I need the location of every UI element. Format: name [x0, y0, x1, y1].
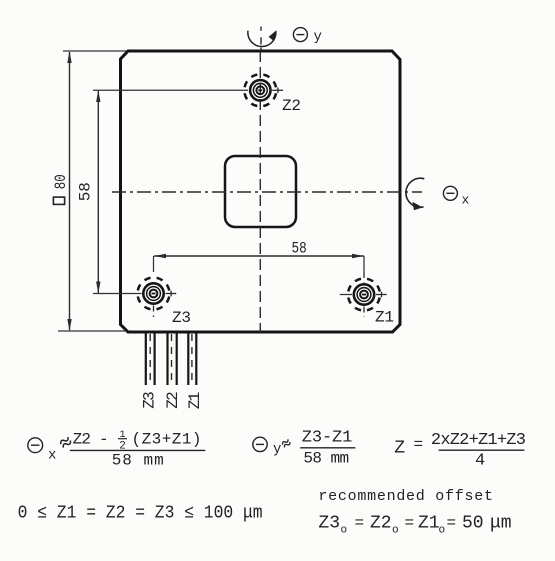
svg-text:4: 4 [475, 452, 485, 471]
svg-text:recommended offset: recommended offset [318, 488, 493, 505]
theta-x symbol [443, 186, 457, 200]
svg-text:o: o [341, 525, 348, 537]
lead label Z2 [164, 391, 182, 409]
leads [146, 333, 197, 385]
svg-text:2xZ2+Z1+Z3: 2xZ2+Z1+Z3 [431, 431, 526, 450]
extension line top [63, 50, 127, 52]
svg-text:=: = [405, 514, 415, 532]
theta-y symbol [293, 28, 307, 42]
svg-text:Z2: Z2 [282, 97, 301, 115]
formula 2 bar [300, 447, 355, 449]
formula 3 bar [439, 449, 525, 451]
svg-text:μm: μm [490, 514, 512, 534]
label 58 vertical [77, 182, 95, 201]
rotation arc x-axis [406, 178, 424, 207]
svg-text:x: x [48, 448, 56, 464]
extension line through Z3 [93, 293, 142, 295]
svg-text:o: o [392, 525, 399, 537]
svg-text:(Z3+Z1): (Z3+Z1) [132, 431, 202, 449]
svg-text:58: 58 [77, 182, 95, 201]
svg-text:Z2 -: Z2 - [73, 431, 109, 449]
svg-text:Z3-Z1: Z3-Z1 [302, 429, 353, 448]
svg-text:0 ≤ Z1 = Z2 = Z3 ≤ 100 μm: 0 ≤ Z1 = Z2 = Z3 ≤ 100 μm [18, 504, 263, 524]
extension line Z1 to dim [363, 256, 365, 272]
formula 1 bar [70, 449, 206, 451]
svg-text:y: y [314, 29, 322, 45]
svg-text:Z2: Z2 [370, 514, 392, 534]
svg-text:=: = [447, 514, 457, 532]
dimension 58 horizontal line [154, 255, 364, 257]
lead label Z3 [141, 391, 159, 409]
svg-text:Z3: Z3 [141, 391, 159, 409]
svg-text:x: x [462, 193, 470, 208]
svg-text:Z1: Z1 [418, 514, 440, 534]
mounting point Z2 [244, 74, 283, 106]
rotation arc y-axis [248, 31, 276, 47]
svg-text:=: = [414, 436, 424, 454]
lead label Z1 [186, 392, 204, 410]
mounting point Z1 [348, 272, 387, 317]
svg-text:58 mm: 58 mm [112, 452, 164, 470]
svg-text:80: 80 [52, 174, 70, 189]
svg-text:=: = [355, 514, 365, 532]
svg-text:Z2: Z2 [164, 391, 182, 409]
svg-text:y: y [273, 442, 281, 458]
svg-text:Z: Z [394, 439, 405, 459]
central square cutout [225, 156, 296, 227]
formula theta-y [253, 437, 267, 451]
extension line Z3 to dim [153, 256, 155, 272]
horizontal center line [112, 191, 422, 193]
vertical center line [259, 51, 261, 332]
svg-text:50: 50 [462, 514, 484, 534]
plate outline [121, 51, 401, 332]
lead center lines [150, 334, 192, 382]
svg-text:Z1: Z1 [186, 392, 204, 410]
formula theta-x [28, 438, 43, 453]
svg-text:Z3: Z3 [318, 514, 340, 534]
extension line left of Z1 [340, 294, 352, 296]
vertical center line above plate [260, 27, 262, 51]
svg-text:Z3: Z3 [172, 309, 191, 327]
label square-80 [52, 174, 70, 204]
svg-text:58 mm: 58 mm [303, 450, 349, 468]
dimension 58 vertical line [97, 91, 99, 293]
dimension 80 line [69, 52, 71, 330]
svg-text:58: 58 [292, 240, 307, 258]
mounting point Z3 [138, 278, 177, 318]
svg-text:o: o [439, 525, 446, 537]
svg-text:Z1: Z1 [375, 309, 394, 327]
extension line through Z2 [93, 89, 248, 91]
extension line bottom [58, 330, 126, 332]
